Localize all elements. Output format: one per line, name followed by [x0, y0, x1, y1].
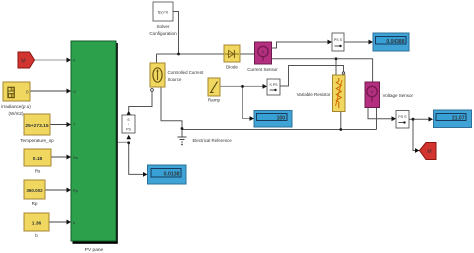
svg-text:V: V	[370, 90, 373, 95]
svg-text:25+273.15: 25+273.15	[25, 123, 49, 129]
svg-text:PS: PS	[126, 128, 131, 132]
svg-text:A: A	[261, 50, 264, 55]
svg-text:(W/m2): (W/m2)	[8, 111, 24, 116]
svg-text:M: M	[21, 59, 25, 65]
svg-text:Source: Source	[168, 77, 182, 82]
svg-text:Rp: Rp	[32, 201, 38, 206]
svg-text:f(x)=0: f(x)=0	[158, 10, 169, 15]
svg-text:Rs: Rs	[73, 155, 78, 160]
svg-text:Solver: Solver	[156, 24, 169, 29]
svg-text:irradiance(p.u): irradiance(p.u)	[1, 104, 31, 109]
svg-text:360.002: 360.002	[26, 188, 43, 193]
svg-text:100: 100	[277, 116, 286, 122]
svg-text:Diode: Diode	[226, 65, 238, 70]
svg-text:Configuration: Configuration	[149, 31, 177, 36]
svg-text:PS S: PS S	[334, 38, 343, 42]
svg-text:G: G	[73, 89, 76, 94]
svg-text:Current Sensor: Current Sensor	[247, 67, 278, 72]
svg-text:21.07: 21.07	[452, 116, 465, 122]
svg-text:PV pane: PV pane	[85, 247, 104, 253]
svg-text:0.18: 0.18	[33, 156, 43, 162]
svg-text:0.0138: 0.0138	[164, 172, 180, 178]
svg-text:↑: ↑	[128, 123, 130, 127]
svg-text:Controlled Current: Controlled Current	[168, 70, 205, 75]
svg-text:Temperature_op: Temperature_op	[20, 138, 54, 143]
svg-text:Rs: Rs	[35, 169, 41, 174]
svg-text:b: b	[35, 233, 38, 238]
svg-text:Ramp: Ramp	[208, 98, 221, 103]
svg-text:Rp: Rp	[73, 188, 79, 193]
svg-text:1.36: 1.36	[32, 221, 42, 227]
svg-text:0.04388: 0.04388	[386, 39, 404, 45]
svg-text:Electrical Reference: Electrical Reference	[193, 138, 233, 143]
svg-text:Variable Resistor: Variable Resistor	[297, 92, 331, 97]
svg-text:PS S: PS S	[398, 115, 407, 119]
svg-text:S PS: S PS	[269, 83, 278, 87]
svg-text:M: M	[427, 149, 431, 155]
svg-text:Voltage Sensor: Voltage Sensor	[383, 93, 414, 98]
